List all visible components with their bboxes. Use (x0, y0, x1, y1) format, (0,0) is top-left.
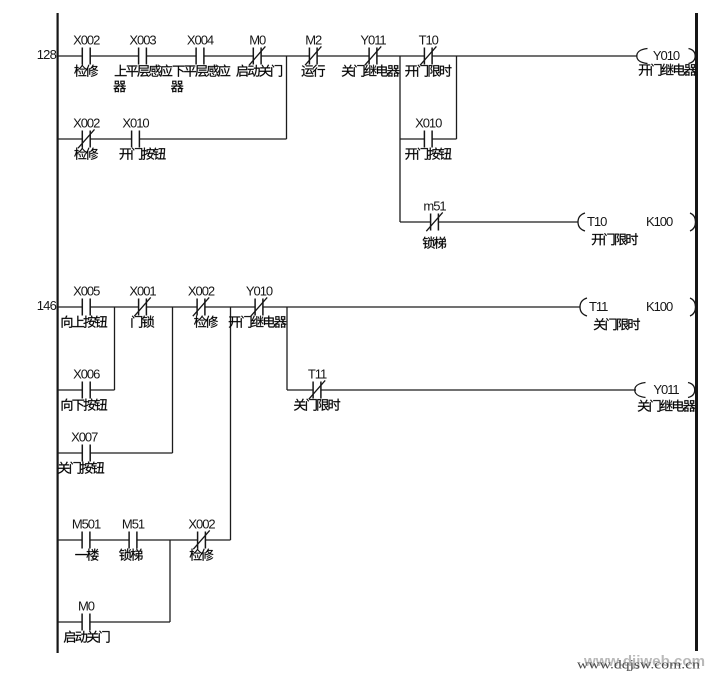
watermark (577, 654, 705, 672)
svg-text:M501: M501 (72, 517, 101, 532)
wire M0 parallel branch (58, 621, 170, 623)
contact X002 (NC) 检修 (188, 517, 215, 561)
wire junction drop X007 branch (172, 307, 174, 453)
svg-text:128: 128 (37, 47, 57, 62)
svg-text:X002: X002 (188, 517, 215, 532)
contact M0 (NO) 启动关门 (64, 599, 110, 643)
svg-text:www.dqjsw.com.cn: www.dqjsw.com.cn (577, 657, 701, 672)
contact X003 (NO) 上平层感应 (113, 33, 172, 93)
svg-text:X006: X006 (73, 367, 100, 382)
wire T11 branch to coil Y011 (287, 389, 636, 391)
contact X002 (NC) 检修 (188, 284, 218, 328)
contact T11 (NC) 关门限时 (294, 367, 340, 411)
svg-text:Y010: Y010 (246, 284, 273, 299)
contact X002 (NO) 检修 (73, 33, 100, 77)
contact M0 (NC) 启动关门 (236, 33, 282, 77)
wire M501-M51-X002 branch (58, 539, 231, 541)
contact X001 (NC) 门锁 (129, 284, 156, 328)
svg-text:X010: X010 (415, 116, 442, 131)
contact M501 (NO) 一楼 (72, 517, 101, 561)
svg-text:M0: M0 (249, 33, 266, 48)
svg-text:Y011: Y011 (653, 382, 679, 397)
svg-text:Y010: Y010 (653, 48, 680, 63)
svg-text:M0: M0 (78, 599, 95, 614)
contact X002 (NC) 检修 (73, 116, 100, 160)
timer coil T11 K100 关门限时 (580, 298, 696, 330)
contact X010 (NO) 开门按钮 (405, 116, 451, 160)
svg-text:X002: X002 (188, 284, 215, 299)
svg-text:T10: T10 (587, 214, 607, 229)
wire junction drop M0 branch (169, 540, 171, 622)
svg-text:146: 146 (37, 298, 57, 313)
svg-text:K100: K100 (646, 299, 673, 314)
coil Y010 开门继电器 (637, 48, 697, 76)
svg-text:X002: X002 (73, 33, 100, 48)
contact Y011 (NC) 关门继电器 (342, 33, 400, 77)
svg-text:X001: X001 (129, 284, 156, 299)
contact m51 (NC) 锁梯 (423, 199, 447, 249)
wire X006 parallel branch (58, 389, 115, 391)
contact M51 (NO) 锁梯 (119, 517, 145, 561)
svg-text:X010: X010 (122, 116, 149, 131)
wire rung 128 main (58, 55, 637, 57)
svg-text:X007: X007 (71, 430, 98, 445)
contact X007 (NO) 关门按钮 (58, 430, 104, 474)
svg-text:X005: X005 (73, 284, 100, 299)
wire junction drop X006 branch (114, 307, 116, 390)
contact X006 (NO) 向下按钮 (62, 367, 108, 411)
left power rail (57, 13, 59, 653)
svg-text:T10: T10 (419, 33, 439, 48)
contact X005 (NO) 向上按钮 (62, 284, 108, 328)
svg-text:m51: m51 (423, 199, 446, 214)
svg-text:X003: X003 (129, 33, 156, 48)
wire X010 bypass branch under T10 (400, 138, 457, 140)
svg-text:T11: T11 (308, 367, 327, 382)
right power rail (695, 13, 698, 651)
wire X007 parallel branch (58, 452, 173, 454)
wire junction drop after T10 to X010 bypass (456, 56, 458, 139)
svg-text:X004: X004 (187, 33, 214, 48)
wire junction drop M501 branch (230, 307, 232, 540)
svg-text:T11: T11 (589, 299, 608, 314)
wire m51 branch to timer T10 (400, 221, 578, 223)
svg-text:M2: M2 (305, 33, 322, 48)
svg-text:X002: X002 (73, 116, 100, 131)
wire junction drop after M0 to branch A (286, 56, 288, 139)
wire junction drop after Y011 to m51 branch (399, 56, 401, 222)
contact T10 (NC) 开门限时 (405, 33, 451, 77)
svg-text:Y011: Y011 (360, 33, 386, 48)
coil Y011 关门继电器 (635, 382, 696, 412)
wire rung 128 parallel branch X002-X010 (58, 138, 287, 140)
contact M2 (NC) 运行 (301, 33, 325, 77)
svg-text:M51: M51 (122, 517, 145, 532)
timer coil T10 K100 开门限时 (578, 213, 696, 245)
contact Y010 (NC) 开门继电器 (229, 284, 287, 328)
wire rung 146 main (58, 306, 580, 308)
svg-text:K100: K100 (646, 214, 673, 229)
contact X004 (NO) 下平层感应 (171, 33, 230, 93)
wire junction drop T11 branch (286, 307, 288, 390)
contact X010 (NO) 开门按钮 (119, 116, 165, 160)
